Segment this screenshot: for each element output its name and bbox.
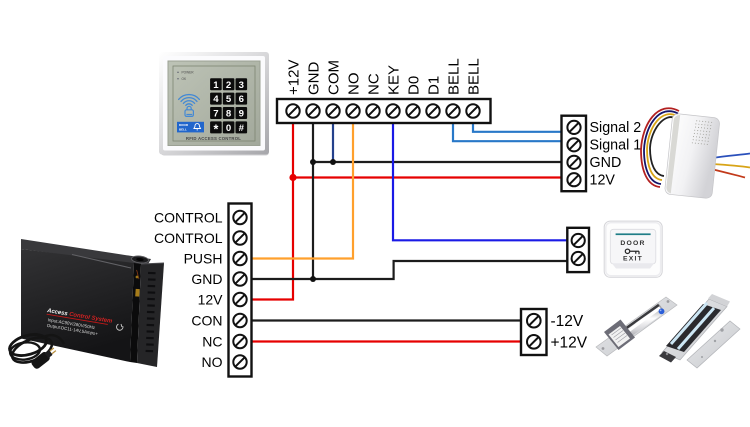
- svg-text:NC: NC: [366, 73, 383, 95]
- svg-text:3: 3: [239, 80, 244, 91]
- svg-text:CONTROL: CONTROL: [154, 210, 223, 226]
- svg-text:#: #: [239, 123, 245, 134]
- svg-text:KEY: KEY: [386, 65, 403, 95]
- svg-text:4: 4: [213, 94, 219, 105]
- svg-text:Signal 1: Signal 1: [590, 138, 642, 154]
- svg-text:CONTROL: CONTROL: [154, 230, 223, 246]
- svg-text:12V: 12V: [198, 292, 224, 308]
- svg-text:NO: NO: [346, 73, 363, 96]
- svg-text:D0: D0: [406, 76, 423, 95]
- svg-text:RFID ACCESS CONTROL: RFID ACCESS CONTROL: [186, 136, 241, 141]
- svg-text:NC: NC: [202, 334, 222, 350]
- svg-text:BELL: BELL: [446, 58, 463, 95]
- svg-text:6: 6: [239, 94, 244, 105]
- svg-text:EXIT: EXIT: [623, 255, 643, 262]
- svg-text:NO: NO: [202, 354, 223, 370]
- svg-text:GND: GND: [306, 62, 323, 96]
- svg-text:5: 5: [226, 94, 232, 105]
- svg-text:D1: D1: [426, 76, 443, 95]
- svg-text:GND: GND: [590, 155, 622, 171]
- svg-text:Signal 2: Signal 2: [590, 120, 642, 136]
- svg-text:BELL: BELL: [179, 127, 187, 131]
- svg-text:GND: GND: [191, 271, 222, 287]
- svg-text:COM: COM: [326, 60, 343, 95]
- svg-text:POWER: POWER: [182, 71, 195, 75]
- svg-text:9: 9: [239, 109, 244, 120]
- svg-text:7: 7: [213, 109, 218, 120]
- svg-text:-12V: -12V: [551, 313, 584, 330]
- svg-text:*: *: [213, 122, 218, 136]
- svg-text:+12V: +12V: [551, 334, 588, 351]
- svg-text:DOOR: DOOR: [620, 240, 645, 247]
- svg-text:2: 2: [226, 80, 231, 91]
- svg-text:12V: 12V: [590, 173, 616, 189]
- svg-text:+12V: +12V: [286, 60, 303, 95]
- svg-text:PUSH: PUSH: [184, 251, 223, 267]
- svg-text:8: 8: [226, 109, 232, 120]
- svg-text:BELL: BELL: [466, 58, 483, 95]
- svg-text:1: 1: [213, 80, 219, 91]
- svg-text:0: 0: [226, 123, 231, 134]
- svg-text:CON: CON: [191, 313, 222, 329]
